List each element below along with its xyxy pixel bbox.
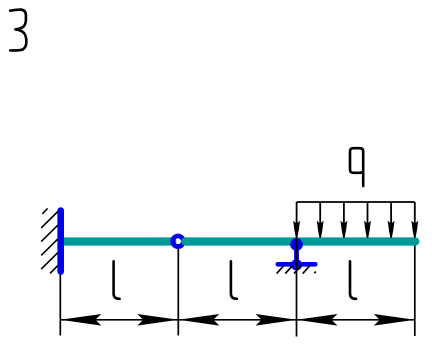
ground hatch 3: [294, 266, 301, 274]
ground hatch 4: [303, 266, 310, 274]
dim arrow right of segment 1: [137, 314, 178, 326]
wall hatch 1: [41, 212, 58, 228]
label 3 (task number): [10, 10, 26, 51]
load arrow shaft 1: [296, 202, 298, 228]
extension line at hinge: [177, 245, 179, 336]
dim arrow left of segment 2: [178, 314, 219, 326]
load arrow head 3: [341, 221, 348, 238]
beam left end round cap: [168, 237, 176, 245]
fixed support wall bar: [57, 211, 64, 272]
load arrow head 4: [364, 221, 371, 238]
label l (segment 3): [350, 261, 356, 299]
load arrow shaft 5: [390, 202, 392, 228]
dim arrow left of segment 1: [60, 314, 101, 326]
roller support top circle: [290, 238, 303, 251]
wall hatch stub: [42, 208, 47, 214]
load arrow shaft 6: [414, 202, 416, 228]
load arrow shaft 4: [367, 202, 369, 228]
wall hatch 5: [50, 266, 58, 274]
hinge ring C1 (donut): [170, 234, 185, 249]
roller support ground bar: [278, 262, 316, 267]
dimension line: [60, 319, 415, 321]
label l (segment 2): [231, 261, 237, 299]
beam segment right (hinge to free end): [185, 237, 415, 245]
label q (distributed load): [350, 148, 363, 186]
load arrow shaft 2: [319, 202, 321, 228]
distributed load top line: [297, 201, 415, 203]
load arrow head 6: [411, 221, 418, 238]
label l (segment 1): [114, 261, 120, 299]
beam segment left (wall to hinge): [59, 237, 173, 245]
dim arrow right of segment 2: [256, 314, 297, 326]
load arrow shaft 3: [343, 202, 345, 228]
roller support stem: [294, 246, 299, 262]
wall hatch 3: [41, 239, 58, 255]
load arrow head 2: [317, 221, 324, 238]
extension line at fixed support: [59, 272, 61, 336]
wall hatch 2: [41, 225, 58, 241]
extension line at roller: [296, 237, 298, 337]
dim arrow right of segment 3: [374, 314, 415, 326]
ground hatch 2: [285, 266, 292, 274]
wall hatch 4: [41, 253, 58, 269]
extension line at right beam end: [414, 238, 416, 336]
load arrow head 5: [388, 221, 395, 238]
ground hatch dot: [314, 272, 316, 274]
load arrow head 1: [293, 221, 300, 238]
dim arrow left of segment 3: [297, 314, 338, 326]
roller support lower circle: [291, 259, 302, 270]
ground hatch 1: [277, 266, 284, 274]
